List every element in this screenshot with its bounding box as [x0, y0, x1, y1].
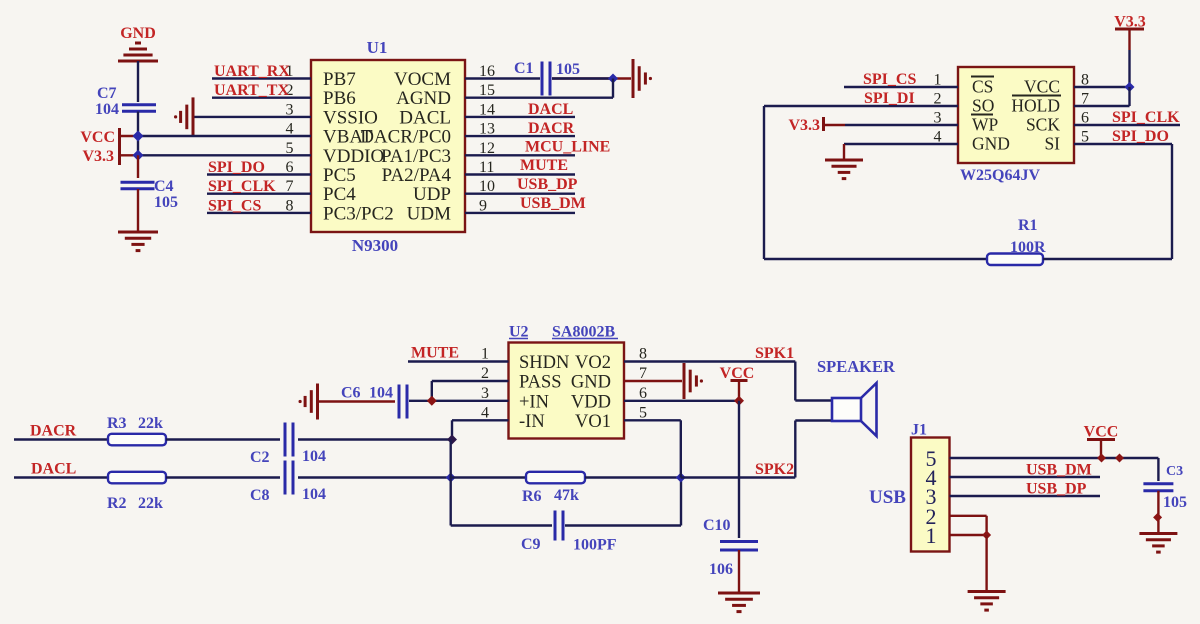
wire U1 pin8 PC3/PC2	[207, 212, 311, 214]
wire U1 pin2 PB6	[212, 96, 311, 98]
C8 value 104	[302, 486, 326, 503]
stub V3.3 to WP	[825, 124, 845, 126]
W25 pin number 1	[934, 72, 942, 89]
J1 pin number 4	[926, 465, 937, 490]
power port bar VCC (USB)	[1087, 438, 1115, 441]
wire U1 pin16 VOCM to C1	[465, 77, 540, 79]
capacitor C3	[1143, 484, 1173, 491]
svg-text:PC3/PC2: PC3/PC2	[323, 203, 394, 224]
J1 pin number 2	[926, 504, 937, 529]
W25 pin number 3	[934, 110, 942, 127]
svg-text:WP: WP	[972, 115, 999, 135]
svg-text:R2: R2	[107, 495, 127, 512]
U1 pin number 8	[286, 197, 294, 214]
svg-text:MUTE: MUTE	[411, 345, 459, 362]
U1 pin number 5	[286, 140, 294, 157]
wire U2 pin5 VO1	[624, 419, 681, 421]
svg-text:SHDN: SHDN	[519, 353, 569, 373]
svg-text:VCC: VCC	[1024, 77, 1060, 97]
svg-text:1: 1	[926, 523, 937, 548]
W25 pin name VCC	[1024, 77, 1060, 97]
svg-text:GND: GND	[972, 134, 1010, 154]
C1 value 105	[556, 61, 580, 78]
USB label	[869, 487, 906, 508]
U1 pin number 14	[479, 101, 495, 118]
wire W25 GND vertical	[843, 144, 845, 160]
svg-text:C6: C6	[341, 385, 361, 402]
svg-text:J1: J1	[911, 422, 927, 439]
C8 label	[250, 487, 270, 504]
IC U1 N9300 body	[311, 60, 465, 232]
U1 part name N9300	[352, 236, 398, 255]
svg-text:105: 105	[154, 194, 178, 211]
U1 pin number 3	[286, 101, 294, 118]
net label SPI_DI	[864, 90, 915, 107]
wire -IN node vertical	[450, 440, 452, 526]
wire J1 pin5 VCC line	[950, 457, 1159, 459]
capacitor C9	[555, 511, 563, 541]
svg-text:PA1/PC3: PA1/PC3	[381, 146, 451, 167]
svg-text:4: 4	[481, 404, 489, 421]
J1 pin number 5	[926, 446, 937, 471]
wire loop bottom right	[1043, 258, 1172, 260]
svg-text:VOCM: VOCM	[394, 69, 451, 90]
power port V3.3 label (top right)	[1114, 14, 1146, 31]
wire V3.3 down to VCC node	[1128, 50, 1130, 87]
ground right of U2 GND	[684, 363, 703, 399]
junction DACL/feedback	[446, 473, 456, 483]
U2 pin number 3	[481, 385, 489, 402]
U1 pin number 15	[479, 82, 495, 99]
capacitor C6	[399, 385, 407, 419]
W25 pin name CS	[971, 77, 994, 97]
capacitor C10	[720, 542, 758, 551]
U1 pin name PB7	[323, 69, 356, 90]
wire down to C3	[1157, 458, 1159, 481]
capacitor C7	[122, 105, 156, 112]
wire C4 to ground	[137, 189, 139, 232]
wire J1 pin2 horizontal	[950, 515, 987, 517]
U1 pin name VOCM	[394, 69, 451, 90]
svg-text:V3.3: V3.3	[788, 117, 820, 134]
wire U2 pin2 PASS	[432, 380, 509, 382]
W25 pin name SCK	[1026, 115, 1060, 135]
svg-text:SPI_DO: SPI_DO	[208, 159, 265, 176]
U1 pin number 9	[479, 197, 487, 214]
svg-text:VDD: VDD	[571, 392, 611, 412]
wire J1 pin3 USB_DP	[950, 495, 1101, 497]
U2 designator	[509, 324, 529, 341]
W25 pin name HOLD	[1011, 96, 1061, 116]
U2 pin name GND	[571, 373, 611, 393]
SPEAKER label	[817, 357, 896, 376]
svg-text:6: 6	[639, 385, 647, 402]
wire J1 pin1	[950, 534, 987, 536]
U1 pin name AGND	[396, 88, 451, 109]
wire U2 pin7 GND	[624, 380, 682, 382]
wire SPK2 to speaker	[795, 419, 832, 421]
wire J1 pin4 USB_DM	[950, 476, 1101, 478]
wire C7 to VCC node	[137, 112, 139, 156]
resistor R3	[108, 434, 166, 446]
C10 value 106	[709, 561, 733, 578]
power port bar V3.3 (W25 left)	[822, 117, 825, 131]
svg-text:C9: C9	[521, 536, 541, 553]
wire U1 pin11	[465, 173, 575, 175]
U1 pin name PC4	[323, 184, 356, 205]
junction node at C1/AGND	[608, 74, 618, 84]
wire U1 pin13	[465, 135, 575, 137]
wire U1 pin7 PC4	[207, 192, 311, 194]
wire U2 pin4 -IN	[452, 419, 509, 421]
power port bar VCC/V3.3	[118, 128, 121, 165]
svg-text:GND: GND	[571, 373, 611, 393]
W25 pin name WP	[971, 115, 999, 135]
U2 part name SA8002B	[552, 324, 618, 341]
W25 pin number 8	[1081, 72, 1089, 89]
U2 pin name +IN	[519, 392, 549, 412]
svg-text:VCC: VCC	[1084, 424, 1119, 441]
svg-text:USB_DM: USB_DM	[520, 195, 586, 212]
resistor R6	[526, 472, 585, 484]
svg-text:104: 104	[302, 486, 326, 503]
wire W25 pin7 HOLD vertical	[1128, 87, 1130, 106]
power port bar V3.3 (top right)	[1115, 28, 1144, 31]
svg-text:PA2/PA4: PA2/PA4	[382, 165, 452, 186]
W25 pin name GND	[972, 134, 1010, 154]
R3 value 22k	[138, 415, 163, 432]
svg-text:5: 5	[639, 404, 647, 421]
svg-text:PASS: PASS	[519, 373, 562, 393]
svg-text:106: 106	[709, 561, 733, 578]
power port V3.3 label (left)	[82, 148, 114, 165]
wire SO loop vertical	[763, 106, 765, 259]
svg-text:C7: C7	[97, 85, 117, 102]
ground left of C6	[299, 384, 318, 420]
svg-text:3: 3	[481, 385, 489, 402]
svg-text:22k: 22k	[138, 415, 163, 432]
net label DACR (U1)	[528, 120, 575, 137]
net label USB_DM (U1)	[520, 195, 586, 212]
svg-text:W25Q64JV: W25Q64JV	[960, 167, 1040, 184]
wire W25 pin1 CS	[844, 86, 958, 88]
wire SI loop vertical	[1171, 144, 1173, 259]
net label SPI_CLK (W25)	[1112, 109, 1180, 126]
net label SPI_DO	[208, 159, 265, 176]
U1 pin name UDP	[413, 184, 451, 205]
U1 designator	[367, 38, 388, 57]
wire U1 pin10	[465, 192, 575, 194]
wire C8 to feedback node	[298, 476, 451, 478]
net label SPK2	[755, 461, 794, 478]
net label SPI_CLK	[208, 178, 276, 195]
U1 pin number 1	[286, 63, 294, 80]
svg-text:22k: 22k	[138, 495, 163, 512]
svg-text:USB_DP: USB_DP	[517, 176, 578, 193]
svg-text:VDDIO: VDDIO	[323, 146, 384, 167]
svg-text:+IN: +IN	[519, 392, 549, 412]
U1 pin number 11	[479, 159, 494, 176]
U2 pin number 2	[481, 365, 489, 382]
svg-text:SPI_DO: SPI_DO	[1112, 128, 1169, 145]
svg-text:R1: R1	[1018, 217, 1038, 234]
R3 label	[107, 415, 127, 432]
svg-text:C2: C2	[250, 449, 270, 466]
wire U1 pin15 AGND vertical	[612, 79, 614, 98]
svg-text:C1: C1	[514, 60, 534, 77]
wire J1 pin2 vertical	[985, 516, 987, 535]
net label USB_DP (U1)	[517, 176, 578, 193]
junction VO1/feedback	[676, 473, 686, 483]
wire C1 node segment	[552, 77, 613, 79]
svg-text:PB7: PB7	[323, 69, 356, 90]
wire W25 pin5 SI	[1074, 143, 1172, 145]
R1 value 100R	[1010, 239, 1046, 256]
net label UART_RX	[214, 63, 290, 80]
wire loop bottom left	[764, 258, 987, 260]
W25Q64JV part name	[960, 167, 1040, 184]
svg-text:100R: 100R	[1010, 239, 1046, 256]
junction VCC rail	[133, 131, 144, 142]
W25 pin number 7	[1081, 91, 1089, 108]
wire R3 to C2	[166, 438, 280, 440]
wire W25 pin4 GND horizontal	[844, 143, 958, 145]
junction second on pin5 line	[1115, 454, 1124, 463]
power port VCC label (USB)	[1084, 424, 1119, 441]
svg-text:SCK: SCK	[1026, 115, 1060, 135]
svg-text:VO1: VO1	[575, 412, 611, 432]
U2 pin number 8	[639, 346, 647, 363]
svg-text:USB_DM: USB_DM	[1026, 462, 1092, 479]
C3 label	[1166, 464, 1183, 479]
net label MCU_LINE	[525, 139, 610, 156]
U1 pin name DACR/PC0	[360, 127, 451, 148]
wire SPK1 to speaker	[795, 399, 832, 401]
wire DACL net	[14, 476, 108, 478]
capacitor C8	[285, 461, 293, 495]
wire W25 pin8 VCC	[1074, 86, 1130, 88]
junction VCC on pin5 line	[1097, 454, 1106, 463]
svg-text:47k: 47k	[554, 487, 579, 504]
svg-text:USB: USB	[869, 487, 906, 508]
R2 label	[107, 495, 127, 512]
svg-text:SPK1: SPK1	[755, 345, 794, 362]
net label DACL (input)	[31, 461, 76, 478]
svg-text:GND: GND	[120, 25, 156, 42]
C1 label	[514, 60, 534, 77]
wire C10 to ground	[738, 550, 740, 593]
svg-text:PC4: PC4	[323, 184, 356, 205]
svg-text:DACR: DACR	[528, 120, 575, 137]
wire W25 pin2 SO	[764, 105, 958, 107]
J1 pin number 3	[926, 484, 937, 509]
net label SPI_DO (W25)	[1112, 128, 1169, 145]
net label UART_TX	[214, 82, 289, 99]
wire U1 pin3 VSSIO	[194, 116, 311, 118]
net label SPK1	[755, 345, 794, 362]
U1 pin number 13	[479, 121, 495, 138]
svg-text:C8: C8	[250, 487, 270, 504]
U1 pin name UDM	[407, 203, 451, 224]
wire ground to C6	[318, 400, 395, 402]
svg-text:2: 2	[481, 365, 489, 382]
wire C2 to -IN node	[298, 438, 452, 440]
U2 pin name PASS	[519, 373, 562, 393]
C9 label	[521, 536, 541, 553]
net label USB_DM (J1)	[1026, 462, 1092, 479]
W25 pin number 4	[934, 129, 942, 146]
svg-text:PC5: PC5	[323, 165, 356, 186]
stub VCC to VDD node	[738, 382, 740, 401]
ground below W25 GND pin	[825, 160, 863, 179]
svg-text:105: 105	[556, 61, 580, 78]
wire SPK2 up	[794, 421, 796, 478]
C2 value 104	[302, 448, 326, 465]
net label USB_DP (J1)	[1026, 481, 1087, 498]
power port VCC label	[80, 129, 115, 146]
svg-text:VO2: VO2	[575, 353, 611, 373]
R1 label	[1018, 217, 1038, 234]
U2 pin number 1	[481, 346, 489, 363]
C6 label	[341, 385, 361, 402]
svg-text:UART_RX: UART_RX	[214, 63, 290, 80]
svg-text:UDP: UDP	[413, 184, 451, 205]
wire DACR net	[14, 438, 108, 440]
ground below J1	[968, 592, 1006, 611]
junction below C3	[1153, 513, 1162, 522]
C4 label	[154, 178, 174, 195]
svg-text:SO: SO	[972, 96, 994, 116]
svg-text:-IN: -IN	[519, 412, 545, 432]
C6 value 104	[369, 385, 393, 402]
C9 value 100PF	[573, 537, 617, 554]
svg-text:7: 7	[639, 365, 647, 382]
svg-text:U1: U1	[367, 38, 388, 57]
U1 pin name PC5	[323, 165, 356, 186]
wire feedback to R6	[451, 476, 526, 478]
ground right of C1	[633, 59, 652, 98]
ground below C3	[1139, 534, 1177, 553]
svg-text:UART_TX: UART_TX	[214, 82, 289, 99]
svg-text:SPEAKER: SPEAKER	[817, 357, 896, 376]
U2 pin number 4	[481, 404, 489, 421]
R2 value 22k	[138, 495, 163, 512]
power port GND label	[120, 25, 156, 42]
wire W25 pin6 SCK	[1074, 124, 1180, 126]
net label SPI_CS (W25)	[863, 71, 916, 88]
svg-text:DACL: DACL	[528, 101, 573, 118]
resistor R1	[987, 254, 1043, 266]
wire C1 to ground node	[552, 77, 631, 79]
wire U1 pin14	[465, 116, 575, 118]
U1 pin number 10	[479, 178, 495, 195]
svg-text:SPI_DI: SPI_DI	[864, 90, 915, 107]
C10 label	[703, 517, 731, 534]
svg-text:104: 104	[95, 101, 119, 118]
C3 value 105	[1163, 494, 1187, 511]
stub VCC down	[1100, 440, 1102, 458]
svg-text:C10: C10	[703, 517, 731, 534]
power port VCC label (U2)	[720, 365, 755, 382]
U1 pin name PA1/PC3	[381, 146, 451, 167]
junction V3.3 rail	[133, 150, 144, 161]
svg-text:8: 8	[639, 346, 647, 363]
U1 pin name VBAT	[323, 127, 373, 148]
wire C9 left	[451, 524, 552, 526]
svg-text:AGND: AGND	[396, 88, 451, 109]
power port bar VCC (U2)	[731, 379, 748, 382]
wire U1 pin6 PC5	[207, 173, 311, 175]
wire W25 pin7 HOLD horizontal	[1074, 105, 1130, 107]
wire U1 pin5 VDDIO to V3.3 rail	[138, 154, 311, 156]
wire U1 pin9	[465, 212, 575, 214]
wire C6 to U2 +IN	[409, 400, 509, 402]
svg-text:VSSIO: VSSIO	[323, 107, 378, 128]
ground below C4	[118, 232, 158, 251]
R6 label	[522, 488, 542, 505]
svg-text:104: 104	[369, 385, 393, 402]
wire R2 to C8	[166, 476, 280, 478]
U1 pin name PC3/PC2	[323, 203, 394, 224]
junction -IN/DACR	[447, 435, 457, 445]
wire U1 pin15 AGND horizontal	[465, 96, 613, 98]
stub VCC to rail	[121, 135, 138, 137]
svg-text:DACL: DACL	[399, 107, 451, 128]
W25 pin number 5	[1081, 129, 1089, 146]
svg-text:C3: C3	[1166, 464, 1183, 479]
wire V3.3 down stub	[1128, 29, 1130, 50]
W25 pin number 6	[1081, 110, 1089, 127]
power port GND symbol	[118, 43, 158, 61]
svg-text:CS: CS	[972, 77, 993, 97]
svg-text:VCC: VCC	[80, 129, 115, 146]
W25 pin number 2	[934, 91, 942, 108]
svg-text:100PF: 100PF	[573, 537, 617, 554]
svg-text:MUTE: MUTE	[520, 157, 568, 174]
wire to USB ground	[985, 535, 987, 591]
svg-text:HOLD: HOLD	[1011, 96, 1060, 116]
svg-text:C4: C4	[154, 178, 174, 195]
U1 pin number 16	[479, 63, 495, 80]
U1 pin number 2	[286, 82, 294, 99]
speaker LS1 symbol	[832, 383, 877, 436]
svg-text:SPI_CLK: SPI_CLK	[208, 178, 276, 195]
U1 pin number 4	[286, 121, 294, 138]
net label MUTE (U1)	[520, 157, 568, 174]
junction VDD/VCC	[734, 396, 744, 406]
wire C9 up to VO1 node	[680, 478, 682, 526]
svg-text:1: 1	[481, 346, 489, 363]
wire V3.3 node to C4	[137, 155, 139, 178]
W25 pin name SO	[972, 96, 994, 116]
svg-text:R3: R3	[107, 415, 127, 432]
svg-text:SI: SI	[1044, 134, 1060, 154]
svg-text:DACR/PC0: DACR/PC0	[360, 127, 451, 148]
svg-text:R6: R6	[522, 488, 542, 505]
U1 pin name DACL	[399, 107, 451, 128]
U2 pin number 6	[639, 385, 647, 402]
wire U1 pin1 PB7	[212, 77, 311, 79]
R6 value 47k	[554, 487, 579, 504]
wire VO1 down	[680, 420, 682, 477]
svg-text:N9300: N9300	[352, 236, 398, 255]
svg-text:105: 105	[1163, 494, 1187, 511]
U2 pin number 5	[639, 404, 647, 421]
svg-text:V3.3: V3.3	[82, 148, 114, 165]
wire U1 pin12	[465, 154, 575, 156]
connector J1 body	[911, 438, 950, 552]
IC U2 SA8002B body	[509, 343, 625, 439]
